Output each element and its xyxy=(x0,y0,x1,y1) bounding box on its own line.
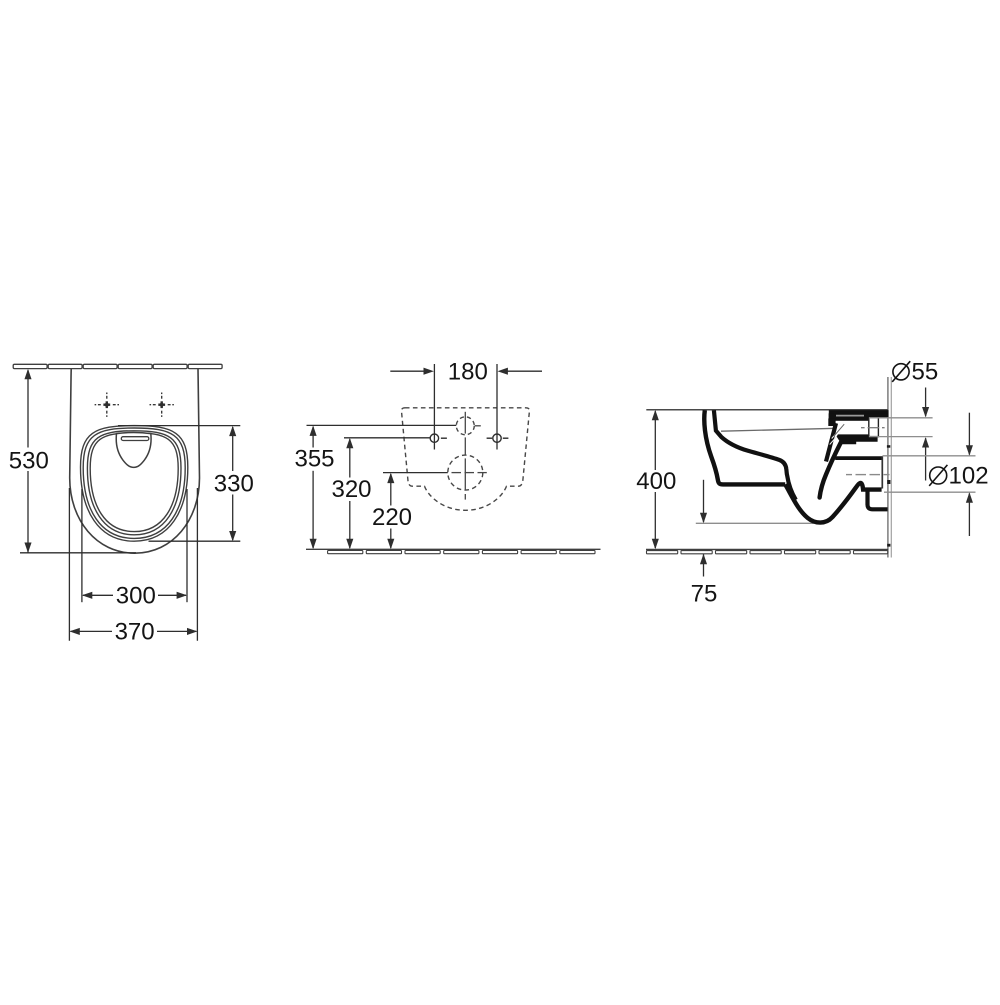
wall tile bar (top view wall) xyxy=(13,364,222,368)
dim 530 extension line (body bottom, to left) xyxy=(20,552,136,554)
water inlet circle (d55) xyxy=(456,417,474,435)
dim d55 line + arrows xyxy=(922,388,929,481)
dim 530 line + arrows xyxy=(24,369,31,553)
seat ring second xyxy=(83,428,185,538)
outlet horizontal center dashes xyxy=(452,472,487,474)
gray lid stripe xyxy=(836,415,864,417)
bowl front outer profile xyxy=(704,410,785,484)
wall double line xyxy=(888,377,891,558)
svg-text:320: 320 xyxy=(331,476,371,503)
outlet assembly top bar xyxy=(835,456,882,460)
svg-text:102: 102 xyxy=(949,463,989,490)
dim 180 line + arrows xyxy=(390,368,542,375)
floor line xyxy=(306,548,601,550)
dim 330 extension bottom (seat bottom) xyxy=(149,540,241,542)
dim 355 line + arrows xyxy=(310,426,317,550)
outlet circle (d102) xyxy=(448,455,483,490)
dim 75 lower line + up arrow xyxy=(700,550,707,577)
floor tiles xyxy=(647,551,888,554)
outlet center dashed line xyxy=(846,474,890,476)
dim 370 extension lines xyxy=(69,488,197,641)
bottom rim reference line (75) xyxy=(696,522,814,524)
svg-text:180: 180 xyxy=(448,359,488,386)
dim 400 line + arrows xyxy=(652,410,659,549)
dim d102 extension lines xyxy=(883,456,976,492)
floor tiles xyxy=(328,551,595,554)
dim 330 extension top (seat top) xyxy=(118,425,240,427)
outlet L-step xyxy=(868,492,888,510)
svg-text:530: 530 xyxy=(9,447,49,474)
svg-text:355: 355 xyxy=(294,446,334,473)
left column of flush housing xyxy=(828,419,835,426)
bowl opening inner xyxy=(90,433,178,532)
svg-text:220: 220 xyxy=(372,504,412,531)
flush housing lower blob xyxy=(837,434,878,444)
dim d55 text xyxy=(892,359,938,386)
svg-text:300: 300 xyxy=(116,583,156,610)
vertical center line through circles xyxy=(464,412,466,500)
svg-text:370: 370 xyxy=(115,619,155,646)
seat ring outer xyxy=(81,426,188,542)
seat opening outer xyxy=(87,431,181,535)
inlet box center dashes xyxy=(861,427,885,429)
fixing hole left (circle+dashes) xyxy=(430,434,447,442)
dim 180 extension verticals xyxy=(434,364,497,450)
bowl front inner + rim xyxy=(714,410,796,500)
dashed rear body outline xyxy=(401,408,529,511)
dim 300 line + arrows xyxy=(82,592,187,599)
hatch tail thin line xyxy=(834,424,844,436)
trap weir banana xyxy=(820,443,841,498)
svg-text:55: 55 xyxy=(912,359,939,386)
dim 220 line + arrows xyxy=(387,473,394,550)
outlet pipe face thin xyxy=(881,456,883,488)
WC body outline (top view) xyxy=(70,369,200,553)
fixing hole crosshair right xyxy=(150,393,174,417)
dim 220 extension (outlet center) xyxy=(383,472,448,474)
cistern top thick bar xyxy=(829,410,889,414)
dim 370 line + arrows xyxy=(69,628,197,635)
dim 75 upper line + down arrow xyxy=(700,480,707,523)
svg-text:330: 330 xyxy=(214,470,254,497)
dim 300 extension lines xyxy=(82,489,187,602)
dim d55 extension lines xyxy=(869,418,933,437)
inlet pipe box xyxy=(869,418,879,437)
svg-text:75: 75 xyxy=(691,580,718,607)
floor line xyxy=(646,548,888,550)
flush shield cover xyxy=(116,433,151,468)
dim d102 line + arrows xyxy=(966,413,973,536)
top reference line (400) xyxy=(646,409,888,411)
inlet right center dash xyxy=(475,425,481,427)
dim 355 extension (inlet center) xyxy=(307,424,457,426)
trap U curve and hump to outlet xyxy=(785,483,881,522)
dim 330 line + arrows xyxy=(229,426,236,542)
dim 320 extension (fixing holes) xyxy=(344,437,430,439)
dim 320 line + arrows xyxy=(346,438,353,549)
shield slot xyxy=(121,437,149,441)
seat plane thin line xyxy=(721,428,837,431)
fixing hole crosshair left xyxy=(95,393,119,417)
dim d102 text xyxy=(929,463,988,490)
fixing hole right (circle+dashes) xyxy=(487,434,509,442)
hatch slashes on arm xyxy=(830,427,843,445)
wall tick marks xyxy=(887,445,891,546)
cistern black band xyxy=(829,413,889,418)
flush channel diagonal arm xyxy=(826,423,836,461)
svg-text:400: 400 xyxy=(636,468,676,495)
